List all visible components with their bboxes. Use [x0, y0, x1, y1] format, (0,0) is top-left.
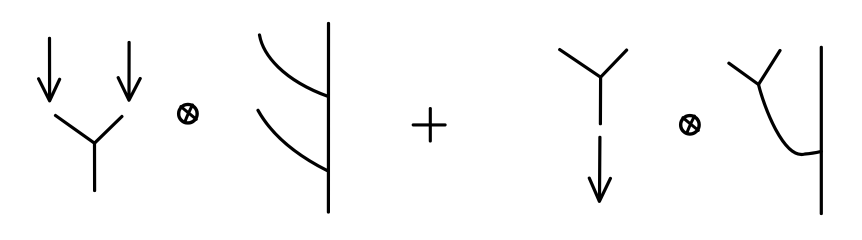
T2 lower branch curve [258, 110, 327, 170]
operator plus horizontal bar [413, 123, 445, 126]
arrow A2 shaft [127, 43, 130, 99]
T3 stem segment [599, 77, 602, 124]
T4 branch curve to trunk [759, 85, 822, 155]
T3 right branch [601, 50, 627, 77]
arrow A1 head [39, 79, 60, 101]
arrow A1 shaft [48, 38, 51, 99]
arrow A3 shaft [598, 137, 602, 199]
operator otimes 1 [179, 104, 198, 123]
T4 fork right branch [759, 51, 781, 85]
arrow A3 head [589, 178, 610, 201]
T1 root stem [93, 143, 96, 190]
T2 trunk [327, 24, 330, 213]
T1 right branch [95, 117, 122, 144]
T4 fork left branch [729, 63, 759, 84]
operator otimes 2 [681, 116, 700, 135]
T3 left branch [560, 50, 601, 78]
arrow A2 head [118, 78, 140, 101]
T1 left branch [56, 116, 95, 144]
T2 upper branch curve [260, 35, 329, 96]
T4 trunk [820, 47, 823, 213]
operator plus vertical bar [429, 109, 432, 141]
